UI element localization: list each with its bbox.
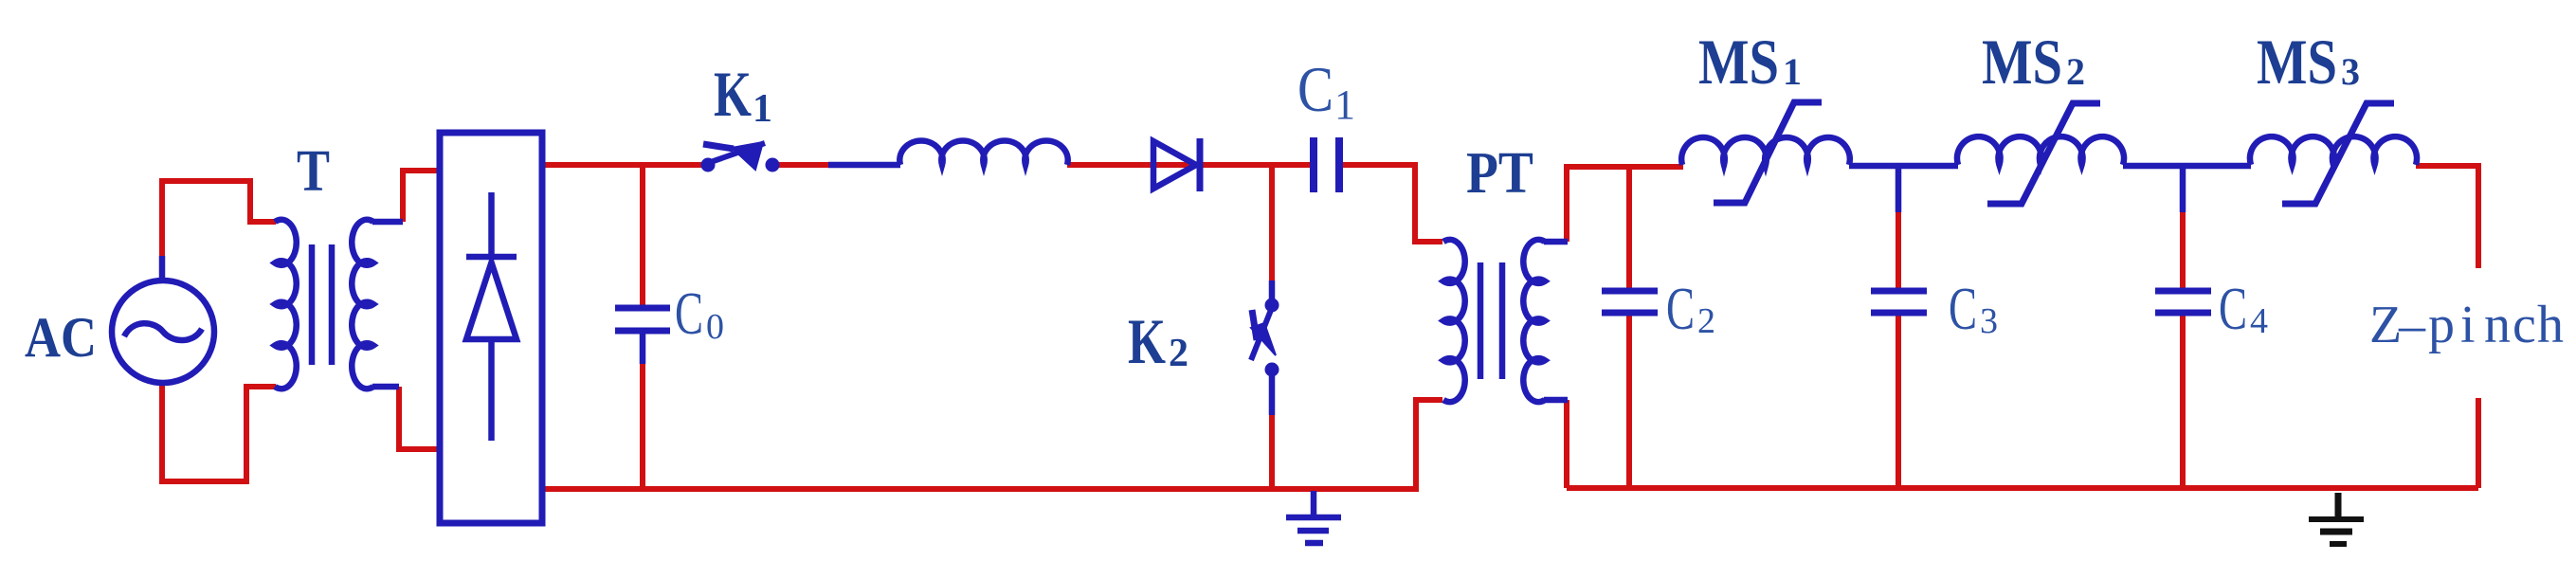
svg-text:C: C — [1666, 276, 1695, 342]
svg-text:1: 1 — [1783, 50, 1802, 93]
svg-text:1: 1 — [753, 87, 772, 131]
svg-text:C: C — [1949, 276, 1977, 342]
svg-text:2: 2 — [1169, 332, 1188, 375]
svg-text:T: T — [297, 139, 330, 204]
svg-text:K: K — [1128, 305, 1166, 377]
svg-text:0: 0 — [706, 307, 724, 347]
svg-text:1: 1 — [1334, 81, 1355, 128]
svg-text:3: 3 — [1980, 301, 1998, 341]
svg-text:C: C — [2219, 276, 2247, 342]
svg-text:2: 2 — [1697, 301, 1715, 341]
svg-text:AC: AC — [25, 306, 97, 369]
svg-text:K: K — [714, 58, 752, 130]
svg-text:PT: PT — [1466, 141, 1533, 206]
svg-text:MS: MS — [2257, 26, 2337, 98]
svg-text:3: 3 — [2341, 50, 2360, 93]
svg-text:C: C — [675, 280, 703, 347]
svg-text:4: 4 — [2250, 301, 2268, 341]
svg-text:C: C — [1297, 53, 1333, 125]
svg-text:Z–pinch: Z–pinch — [2369, 296, 2564, 354]
svg-text:2: 2 — [2066, 50, 2085, 93]
svg-text:MS: MS — [1698, 26, 1779, 98]
svg-text:MS: MS — [1982, 26, 2062, 98]
